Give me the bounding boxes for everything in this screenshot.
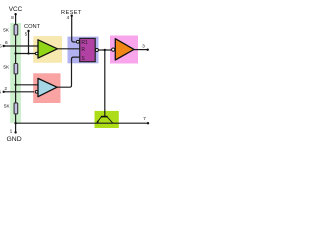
pin dot VCC 8 (14, 13, 16, 15)
wire comparator 1 output to R (57, 48, 79, 50)
pin dot DISCH 7 (147, 122, 149, 124)
svg-text:7: 7 (143, 116, 146, 122)
output driver buffer (115, 39, 134, 60)
resistor R mid 5K (14, 64, 18, 74)
svg-text:RESET: RESET (61, 10, 82, 16)
transistor emitter arrowhead (96, 120, 99, 122)
wire base drop to transistor (104, 50, 106, 116)
wire RESET drop (72, 16, 76, 42)
svg-text:5K: 5K (3, 65, 10, 70)
junction node GND line (14, 122, 16, 124)
svg-text:2: 2 (4, 86, 7, 92)
junction node CONT/divider (14, 52, 16, 54)
op-amp comparator 2 (trigger) (38, 78, 57, 96)
transistor Q1 discharge (97, 117, 113, 123)
svg-text:3: 3 (142, 44, 145, 50)
highlight: trigger comparator box (33, 73, 60, 103)
svg-text:THRES: THRES (0, 44, 2, 50)
wire VCC to R1 (15, 14, 17, 24)
resistor R top 5K (14, 25, 18, 35)
bubble comparator 2 inverting input (35, 91, 38, 94)
pin dot OUT 3 (147, 49, 149, 51)
junction node CONT drop tee (27, 52, 29, 54)
wire CONT node to comparator 1 (16, 53, 36, 55)
wire divider node to comparator 2 (16, 84, 38, 86)
bubble driver input (112, 48, 115, 51)
wire TRIG (4, 91, 34, 93)
svg-text:4: 4 (67, 15, 70, 21)
wire R3 to GND (15, 114, 17, 132)
pin dot GND 1 (14, 131, 16, 133)
bubble FF output (95, 49, 98, 52)
highlight: flip-flop box (68, 37, 99, 64)
pin dot TRIG 2 (3, 91, 5, 93)
wire FF output row (98, 49, 111, 51)
wire GND / discharge line (16, 122, 148, 124)
svg-text:1: 1 (10, 128, 13, 134)
svg-text:R1: R1 (81, 40, 88, 46)
svg-text:5: 5 (25, 32, 28, 38)
wire THRES (4, 45, 38, 47)
svg-text:R: R (81, 47, 85, 53)
highlight: threshold comparator box (33, 36, 62, 63)
wire R2 to R3 (15, 74, 17, 102)
junction node divider/comp2 (14, 84, 16, 86)
bubble comparator 1 inverting input (35, 52, 38, 55)
svg-text:6: 6 (5, 40, 8, 46)
wire comparator 2 output to S (57, 57, 80, 87)
wire CONT pin drop (28, 31, 30, 54)
pin dot RESET 4 (71, 15, 73, 17)
junction node base drop (104, 49, 106, 51)
svg-text:CONT: CONT (24, 24, 41, 30)
highlight: output stage box (110, 36, 138, 64)
svg-text:GND: GND (7, 136, 22, 143)
svg-text:VCC: VCC (9, 6, 23, 13)
svg-text:8: 8 (11, 15, 14, 21)
flip-flop U1 (80, 38, 96, 61)
highlight: voltage divider band (10, 23, 21, 123)
pin dot CONT 5 (27, 30, 29, 32)
bubble FF R1 input (77, 40, 80, 43)
wire output to pin 3 (134, 49, 148, 51)
svg-text:5K: 5K (4, 104, 11, 109)
highlight: discharge transistor box (95, 111, 119, 128)
svg-text:5K: 5K (3, 27, 10, 32)
wire R1 to R2 (15, 36, 17, 64)
pin dot THRES 6 (3, 45, 5, 47)
resistor R bottom 5K (14, 103, 18, 114)
op-amp comparator 1 (threshold) (38, 40, 57, 58)
